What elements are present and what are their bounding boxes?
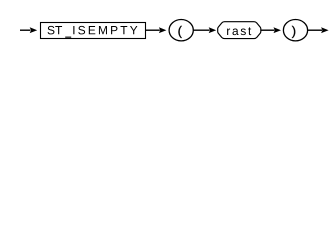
wire — [261, 29, 275, 31]
label ) — [292, 26, 295, 38]
terminal ( — [169, 20, 193, 41]
wire — [145, 29, 159, 31]
wire — [193, 29, 209, 31]
wire — [20, 29, 30, 31]
arrowhead — [274, 27, 282, 33]
label rast — [227, 27, 251, 35]
terminal rast — [218, 22, 261, 39]
box ST_ISEMPTY — [41, 23, 146, 39]
arrowhead — [159, 27, 167, 33]
arrowhead — [321, 27, 329, 33]
terminal ) — [283, 20, 307, 41]
arrowhead — [30, 27, 38, 33]
label ( — [178, 26, 181, 38]
wire — [308, 29, 322, 31]
arrowhead — [209, 27, 217, 33]
label ST_ISEMPTY — [48, 26, 63, 34]
